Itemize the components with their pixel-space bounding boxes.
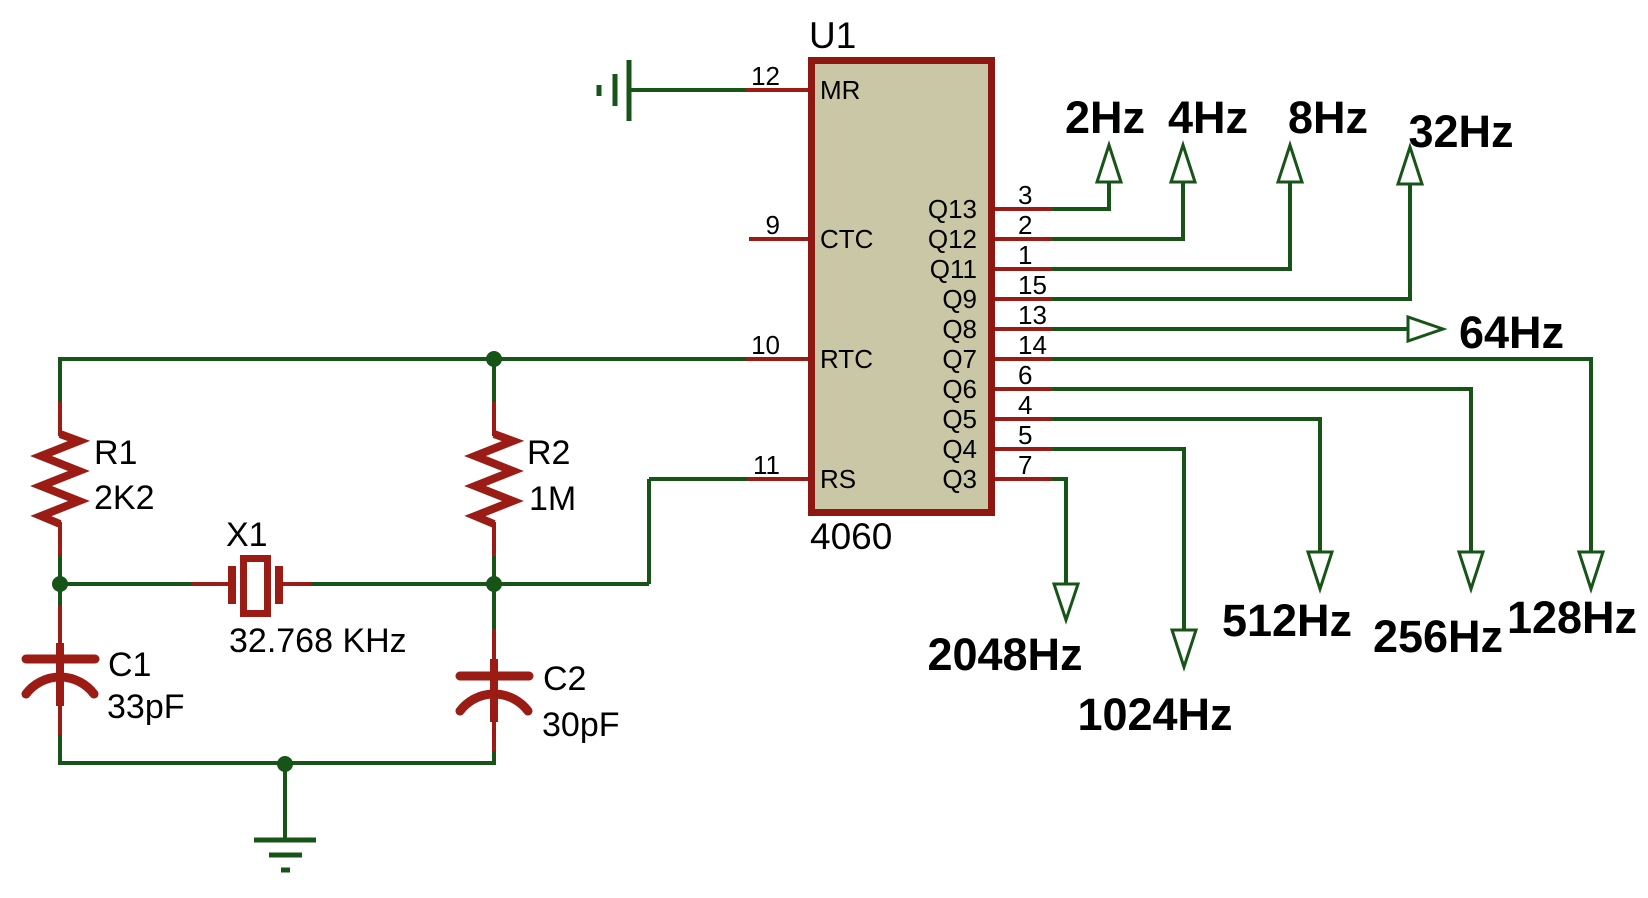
output arrow 256Hz	[1459, 552, 1483, 589]
svg-text:Q7: Q7	[942, 344, 977, 374]
pin 3 (Q13) of U1	[928, 180, 1052, 224]
capacitor C2	[460, 629, 529, 753]
wire Q3 to 2048Hz arrow	[1052, 479, 1066, 584]
svg-text:4060: 4060	[810, 516, 892, 557]
wire Q5 to 512Hz arrow	[1052, 419, 1320, 552]
junction RTC / R2	[486, 351, 502, 367]
pin 4 (Q5) of U1	[942, 390, 1052, 434]
resistor R2	[475, 402, 513, 556]
wire crystal right to RS riser	[311, 582, 649, 586]
svg-text:X1: X1	[226, 516, 268, 554]
svg-text:30pF: 30pF	[542, 706, 620, 744]
svg-text:RS: RS	[820, 464, 856, 494]
wire Q6 to 256Hz arrow	[1052, 389, 1471, 552]
svg-text:32.768 KHz: 32.768 KHz	[229, 622, 407, 660]
svg-text:2K2: 2K2	[94, 479, 155, 517]
svg-text:11: 11	[753, 450, 780, 480]
output arrow 4Hz	[1171, 145, 1195, 182]
wire ground to MR pin 12	[629, 88, 746, 92]
output arrow 2Hz	[1097, 145, 1121, 182]
wire node A to crystal left	[60, 582, 191, 586]
wire node A down to C1	[58, 584, 62, 608]
wire C2 bottom to ground rail	[492, 751, 496, 765]
wire R1 bottom to crystal node	[58, 556, 62, 584]
ground symbol (bottom)	[254, 840, 316, 870]
svg-text:256Hz: 256Hz	[1373, 611, 1503, 662]
svg-text:4Hz: 4Hz	[1168, 92, 1248, 143]
svg-text:3: 3	[1018, 180, 1032, 210]
svg-text:10: 10	[751, 330, 780, 360]
ground symbol (MR, rotated left)	[599, 60, 629, 121]
wire ground rail C1 to C2	[60, 761, 494, 765]
svg-text:2: 2	[1018, 210, 1032, 240]
svg-text:Q5: Q5	[942, 404, 977, 434]
junction ground rail	[277, 756, 293, 772]
crystal X1	[191, 559, 311, 614]
svg-text:15: 15	[1018, 270, 1047, 300]
svg-text:512Hz: 512Hz	[1222, 595, 1352, 646]
output arrow 8Hz	[1278, 145, 1302, 182]
output arrow 64Hz (right)	[1408, 317, 1443, 341]
pin 5 (Q4) of U1	[942, 420, 1052, 464]
svg-text:13: 13	[1018, 300, 1047, 330]
svg-text:2Hz: 2Hz	[1065, 92, 1145, 143]
junction node B (R2/X1/C2/RS)	[486, 576, 502, 592]
wire node B down to C2	[492, 584, 496, 631]
svg-text:12: 12	[751, 61, 780, 91]
wire Q8 to 64Hz arrow	[1052, 327, 1410, 331]
svg-text:Q12: Q12	[928, 224, 977, 254]
svg-text:Q11: Q11	[930, 254, 977, 284]
IC U1 (4060) body	[812, 61, 992, 513]
svg-text:4: 4	[1018, 390, 1032, 420]
svg-text:6: 6	[1018, 360, 1032, 390]
svg-text:64Hz: 64Hz	[1459, 307, 1564, 358]
wire junction to ground symbol	[283, 764, 287, 838]
svg-text:CTC: CTC	[820, 224, 873, 254]
svg-text:R1: R1	[94, 434, 137, 472]
wire riser to RS pin 11	[649, 477, 747, 481]
svg-text:Q6: Q6	[942, 374, 977, 404]
svg-text:33pF: 33pF	[107, 688, 185, 726]
output arrow 2048Hz	[1054, 584, 1078, 620]
svg-text:R2: R2	[527, 434, 570, 472]
svg-text:1: 1	[1018, 240, 1032, 270]
svg-text:Q13: Q13	[928, 194, 977, 224]
svg-text:C2: C2	[543, 660, 586, 698]
svg-text:Q3: Q3	[942, 464, 977, 494]
svg-text:1M: 1M	[529, 480, 576, 518]
output arrow 32Hz	[1398, 147, 1422, 184]
wire R2 bottom to junction	[492, 556, 496, 584]
resistor R1	[41, 402, 79, 556]
svg-text:9: 9	[766, 210, 780, 240]
pin 12 (MR) of U1	[746, 61, 860, 105]
svg-text:Q4: Q4	[942, 434, 977, 464]
svg-text:Q8: Q8	[942, 314, 977, 344]
pin 6 (Q6) of U1	[942, 360, 1052, 404]
pin 1 (Q11) of U1	[930, 240, 1052, 284]
wire RS riser vertical	[647, 479, 651, 584]
svg-text:C1: C1	[108, 646, 151, 684]
wire top-left corner down to R1	[58, 357, 62, 402]
wire Q4 to 1024Hz arrow	[1052, 449, 1184, 630]
wire Q11 to 8Hz arrow	[1052, 182, 1290, 269]
pin 15 (Q9) of U1	[942, 270, 1052, 314]
svg-text:U1: U1	[809, 15, 856, 56]
wire C1 bottom to ground rail	[58, 735, 62, 765]
svg-text:5: 5	[1018, 420, 1032, 450]
svg-text:2048Hz: 2048Hz	[927, 629, 1082, 680]
svg-text:8Hz: 8Hz	[1288, 92, 1368, 143]
svg-text:14: 14	[1018, 330, 1047, 360]
wire RTC pin 10 to top-left (node RTC)	[60, 357, 746, 361]
svg-text:MR: MR	[820, 75, 860, 105]
capacitor C1	[26, 606, 95, 737]
pin 11 (RS) of U1	[747, 450, 856, 494]
pin 2 (Q12) of U1	[928, 210, 1052, 254]
output arrow 512Hz	[1308, 552, 1332, 589]
wire Q13 to 2Hz arrow	[1052, 182, 1109, 209]
pin 14 (Q7) of U1	[942, 330, 1052, 374]
svg-text:Q9: Q9	[942, 284, 977, 314]
pin 10 (RTC) of U1	[746, 330, 873, 374]
svg-text:1024Hz: 1024Hz	[1077, 689, 1232, 740]
junction node A (R1/X1/C1)	[52, 576, 68, 592]
pin 9 (CTC) of U1	[749, 210, 873, 254]
svg-text:32Hz: 32Hz	[1408, 106, 1513, 157]
wire Q7 to 128Hz arrow	[1052, 359, 1591, 552]
wire Q9 to 32Hz arrow	[1052, 184, 1410, 299]
wire RTC junction down to R2	[492, 359, 496, 402]
output arrow 1024Hz	[1172, 630, 1196, 667]
svg-text:7: 7	[1018, 450, 1032, 480]
pin 13 (Q8) of U1	[942, 300, 1052, 344]
output arrow 128Hz	[1579, 552, 1603, 589]
svg-text:128Hz: 128Hz	[1507, 592, 1637, 643]
wire Q12 to 4Hz arrow	[1052, 182, 1183, 239]
pin 7 (Q3) of U1	[942, 450, 1052, 494]
svg-text:RTC: RTC	[820, 344, 873, 374]
